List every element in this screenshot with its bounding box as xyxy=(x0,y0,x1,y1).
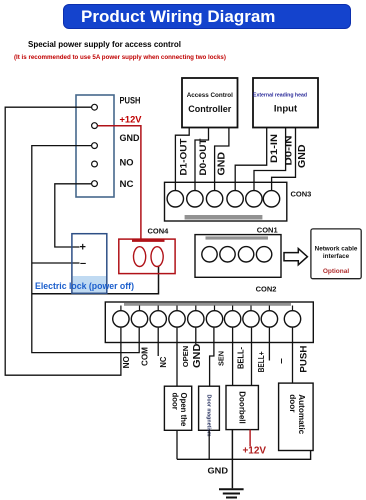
network cable interface box xyxy=(311,229,361,279)
svg-text:+12V: +12V xyxy=(242,446,266,457)
svg-text:Open the: Open the xyxy=(179,393,188,427)
wire OPEN to open-the-door box xyxy=(176,328,178,387)
wire controller D1-OUT xyxy=(175,128,189,191)
label GND (input) xyxy=(296,144,308,168)
wire BELL- to doorbell box xyxy=(232,328,234,386)
svg-text:GND: GND xyxy=(216,152,228,176)
CON2 pin COM xyxy=(131,311,147,327)
CON2 pin NO xyxy=(113,311,129,327)
svg-text:–: – xyxy=(80,258,86,270)
svg-text:GND: GND xyxy=(191,343,203,368)
lock + pin xyxy=(80,242,86,254)
label CON2 xyxy=(256,285,277,294)
wire +12V to CON4 (red) xyxy=(98,126,141,239)
svg-text:GND: GND xyxy=(208,466,229,476)
wire NC to lock + xyxy=(55,184,92,247)
wire PUSH to automatic door box xyxy=(292,328,294,384)
label BELL- xyxy=(237,347,246,369)
wire lock - branch xyxy=(32,262,80,264)
label GND xyxy=(120,133,140,144)
label GND (controller) xyxy=(216,152,228,176)
label OPEN xyxy=(181,346,190,368)
open the door box xyxy=(164,386,191,430)
CON3 pin 1 xyxy=(167,191,183,207)
label D0-OUT xyxy=(198,138,208,176)
svg-text:door: door xyxy=(170,393,179,410)
arrow CON1 to network interface xyxy=(284,249,307,265)
svg-text:+: + xyxy=(80,242,86,254)
CON1 pin 1 xyxy=(202,247,217,262)
CON2 pin PUSH xyxy=(284,311,300,327)
svg-text:interface: interface xyxy=(323,253,350,260)
label GND (CON2) xyxy=(191,343,203,368)
svg-text:BELL+: BELL+ xyxy=(257,351,266,372)
wire NC stub xyxy=(157,328,159,356)
svg-text:CON2: CON2 xyxy=(256,285,277,294)
label CON3 xyxy=(291,190,312,199)
wire input D0-IN xyxy=(254,128,286,191)
svg-text:D0-IN: D0-IN xyxy=(284,136,294,166)
svg-text:Optional: Optional xyxy=(323,268,350,275)
svg-text:door: door xyxy=(288,394,297,413)
wire input D1-IN xyxy=(235,128,267,191)
svg-text:Electric lock (power off): Electric lock (power off) xyxy=(35,281,134,291)
svg-text:D0-OUT: D0-OUT xyxy=(198,138,208,176)
label PUSH (CON2) xyxy=(298,345,309,372)
connector CON2 xyxy=(105,302,313,343)
svg-text:Door magnetism: Door magnetism xyxy=(206,395,212,438)
svg-text:NC: NC xyxy=(159,356,168,367)
label dash (pin 9) xyxy=(277,357,286,364)
svg-text:-: - xyxy=(277,357,286,364)
label COM xyxy=(141,347,150,366)
CON1 pin 3 xyxy=(238,247,253,262)
wire doorbell to ground xyxy=(231,430,233,489)
svg-text:SEN: SEN xyxy=(216,351,225,366)
title bar xyxy=(63,4,351,29)
wire box1 to GND bus xyxy=(176,430,178,459)
CON4 pin 2 xyxy=(151,247,163,267)
svg-text:BELL-: BELL- xyxy=(237,347,246,369)
terminal GND xyxy=(92,143,98,149)
title text xyxy=(81,7,281,27)
label CON4 xyxy=(148,227,170,236)
CON2 pin BELL- xyxy=(224,311,240,327)
svg-text:External reading head: External reading head xyxy=(253,93,307,99)
wire controller D0-OUT xyxy=(195,128,209,191)
svg-text:Input: Input xyxy=(274,104,298,115)
doorbell box xyxy=(226,386,258,430)
terminal PUSH xyxy=(92,104,98,110)
wire SEN to door magnetism box xyxy=(210,328,214,387)
CON3 pin 5 xyxy=(246,191,262,207)
label GND (bottom) xyxy=(208,466,229,476)
subtitle xyxy=(28,40,181,49)
door magnetism box xyxy=(199,386,220,437)
terminal +12V xyxy=(92,123,98,129)
external reading head input box U2 xyxy=(253,78,318,128)
wire +12V stub (red) xyxy=(249,430,251,447)
CON1 pin 4 xyxy=(256,247,271,262)
CON3 pin 4 xyxy=(227,191,243,207)
svg-text:Doorbell: Doorbell xyxy=(238,391,247,423)
wire pin9 stub xyxy=(268,328,270,361)
connector CON4 (red) xyxy=(119,239,175,274)
svg-text:+12V: +12V xyxy=(120,115,143,126)
svg-text:D1-IN: D1-IN xyxy=(269,134,279,163)
svg-text:CON3: CON3 xyxy=(291,190,312,199)
terminal NC xyxy=(92,181,98,187)
label D1-IN xyxy=(269,134,279,163)
label +12V xyxy=(120,115,143,126)
automatic door box xyxy=(279,383,314,450)
ground symbol xyxy=(219,489,244,497)
svg-text:PUSH: PUSH xyxy=(298,345,309,372)
svg-text:Network cable: Network cable xyxy=(315,246,358,253)
GND bus xyxy=(177,451,311,460)
svg-text:NO: NO xyxy=(122,356,131,368)
CON2 pin OPEN xyxy=(169,311,185,327)
lock - pin xyxy=(80,258,86,270)
label NC xyxy=(120,179,134,190)
label NC xyxy=(159,356,168,367)
CON2 pin NC xyxy=(150,311,166,327)
svg-text:OPEN: OPEN xyxy=(181,346,190,368)
label CON1 xyxy=(257,226,278,235)
svg-text:NO: NO xyxy=(120,158,134,169)
CON1 pin 2 xyxy=(220,247,235,262)
svg-text:D1-OUT: D1-OUT xyxy=(179,138,189,176)
connector CON1 xyxy=(195,235,281,278)
wire GND to CON2 COM xyxy=(32,146,139,353)
svg-text:GND: GND xyxy=(296,144,308,168)
electric lock box xyxy=(72,234,107,294)
svg-text:NC: NC xyxy=(120,179,134,190)
label electric lock xyxy=(35,281,134,291)
wire CON4 to GND rail xyxy=(32,266,159,294)
label NO xyxy=(120,158,134,169)
svg-text:PUSH: PUSH xyxy=(120,96,141,107)
CON4 pin 1 xyxy=(134,247,146,267)
label +12V (doorbell) xyxy=(242,446,266,457)
CON3 pin 3 xyxy=(206,191,222,207)
CON2 pin SEN xyxy=(206,311,222,327)
wire box2 to GND bus xyxy=(208,430,210,459)
label D0-IN xyxy=(284,136,294,166)
svg-text:Controller: Controller xyxy=(188,104,231,114)
svg-text:Automatic: Automatic xyxy=(297,394,306,434)
wire controller GND xyxy=(215,128,229,191)
CON2 pin stubs xyxy=(121,306,293,311)
CON2 pin BELL+ xyxy=(243,311,259,327)
power supply terminal block (blue box) xyxy=(76,95,114,197)
connector CON3 xyxy=(165,182,287,221)
label PUSH xyxy=(120,96,141,107)
svg-text:COM: COM xyxy=(141,347,150,366)
svg-text:GND: GND xyxy=(120,133,140,144)
terminal NO xyxy=(92,161,98,167)
label D1-OUT xyxy=(179,138,189,176)
CON3 pin 2 xyxy=(187,191,203,207)
wire BELL+ to doorbell box xyxy=(251,328,253,386)
wire GND stub xyxy=(195,328,197,344)
CON3 pin 6 xyxy=(263,191,279,207)
svg-text:CON1: CON1 xyxy=(257,226,278,235)
svg-text:Access Control: Access Control xyxy=(187,92,233,99)
CON2 pin GND xyxy=(188,311,204,327)
wire input GND xyxy=(272,128,296,191)
access control controller box U1 xyxy=(182,78,238,128)
wire PUSH to CON2 NO xyxy=(5,107,121,375)
subtitle note (red) xyxy=(14,54,226,61)
label NO xyxy=(122,356,131,368)
label BELL+ xyxy=(257,351,266,372)
label SEN xyxy=(216,351,225,366)
svg-text:CON4: CON4 xyxy=(148,227,170,236)
CON2 pin 9 xyxy=(261,311,277,327)
